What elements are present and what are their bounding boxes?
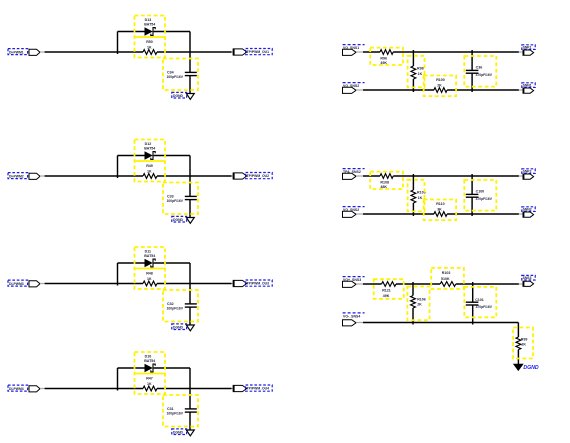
- wire: [363, 213, 434, 215]
- wire / junction: [471, 174, 473, 194]
- wire: [118, 31, 145, 33]
- input port VO_SNS1: [343, 49, 357, 55]
- svg-text:470pF/16V: 470pF/16V: [476, 197, 493, 201]
- resistor R108: [380, 174, 393, 179]
- input net label VO_SNS2: [343, 83, 365, 88]
- svg-text:2K: 2K: [521, 343, 526, 347]
- input port VO_SNS4: [343, 320, 357, 326]
- wire / junction: [117, 368, 119, 391]
- wire: [118, 262, 145, 264]
- input net label VO_SNS3: [343, 277, 365, 282]
- highlight box around diode D12 and resistor R49: [135, 140, 166, 182]
- wire: [356, 175, 363, 177]
- highlight box around resistor R108: [370, 172, 403, 189]
- wire / junction: [412, 50, 414, 66]
- svg-text:R103: R103: [442, 271, 451, 275]
- output net label TP/PWM_OU3: [246, 280, 273, 286]
- wire: [356, 213, 363, 215]
- resistor R106: [411, 296, 416, 308]
- highlight box around resistor R98: [408, 56, 425, 88]
- wire: [519, 175, 523, 177]
- svg-text:1K: 1K: [147, 170, 152, 174]
- wire: [412, 203, 414, 216]
- output port TP/PWM_OU2: [233, 173, 247, 179]
- svg-text:SNN1: SNN1: [523, 84, 532, 88]
- resistor R98: [411, 66, 416, 79]
- svg-text:DI-PWM1: DI-PWM1: [9, 50, 24, 54]
- ground DGND: [186, 430, 194, 436]
- svg-text:2K: 2K: [417, 302, 422, 306]
- svg-text:49K: 49K: [383, 294, 390, 298]
- wire: [363, 322, 518, 324]
- wire: [45, 175, 143, 177]
- svg-text:D11: D11: [145, 250, 151, 254]
- wire: [393, 51, 519, 53]
- input port DI-PWM1: [29, 49, 40, 55]
- wire: [232, 388, 234, 390]
- wire: [40, 283, 45, 285]
- output net label TP/PWM_OU4: [246, 385, 273, 391]
- wire: [412, 308, 414, 325]
- svg-text:BAT54: BAT54: [144, 23, 155, 27]
- wire: [456, 283, 519, 285]
- wire: [45, 51, 143, 53]
- wire: [40, 388, 45, 390]
- input net label DI-PWM4: [8, 385, 28, 391]
- svg-text:SNP1: SNP1: [523, 46, 532, 50]
- diode D11 BAT54: [145, 259, 155, 267]
- output net label SNN1: [522, 83, 535, 88]
- svg-text:R99: R99: [521, 338, 528, 342]
- svg-text:470pF/16V: 470pF/16V: [476, 305, 493, 309]
- resistor R99: [516, 337, 521, 350]
- highlight box around capacitor C31: [163, 395, 198, 427]
- svg-text:100pF/16V: 100pF/16V: [167, 75, 184, 79]
- svg-text:3K: 3K: [437, 208, 442, 212]
- resistor R96: [380, 50, 393, 55]
- input port DI-PWM3: [29, 281, 40, 287]
- wire / junction: [471, 50, 473, 70]
- wire / junction: [412, 174, 414, 190]
- input net label VO_SNS2: [343, 207, 365, 212]
- output net label SNN2: [522, 207, 535, 212]
- wire: [356, 322, 363, 324]
- highlight box around resistor R110: [424, 200, 456, 221]
- highlight divider line: [135, 160, 166, 162]
- wire: [232, 175, 234, 177]
- output port SNN2: [523, 212, 534, 217]
- svg-text:1K: 1K: [147, 277, 152, 281]
- highlight box around diode D13 and resistor R50: [135, 16, 166, 58]
- svg-text:C32: C32: [167, 302, 174, 306]
- diode D10 BAT54: [145, 364, 155, 372]
- svg-text:DGND: DGND: [173, 325, 184, 329]
- wire: [189, 263, 191, 304]
- svg-text:C100: C100: [476, 190, 485, 194]
- output port SNS3: [523, 281, 534, 286]
- svg-text:R48: R48: [146, 272, 153, 276]
- svg-text:C36: C36: [476, 66, 483, 70]
- wire: [519, 213, 523, 215]
- wire: [189, 32, 191, 73]
- svg-text:BAT54: BAT54: [144, 254, 155, 258]
- highlight box around resistor R100: [424, 76, 456, 97]
- wire: [189, 200, 191, 218]
- svg-text:D12: D12: [145, 142, 152, 146]
- output port TP/PWM_OU4: [233, 385, 247, 391]
- capacitor C100: [466, 194, 479, 197]
- svg-text:100pF/16V: 100pF/16V: [167, 306, 184, 310]
- highlight divider line: [135, 373, 166, 375]
- output net label SNP2: [522, 169, 535, 174]
- svg-text:BAT54: BAT54: [144, 359, 155, 363]
- svg-text:R100: R100: [436, 78, 445, 82]
- highlight box around resistor R121: [374, 279, 404, 299]
- input net label TPA_SNS2: [343, 169, 365, 174]
- svg-text:DGND: DGND: [173, 94, 184, 98]
- wire: [189, 76, 191, 94]
- svg-text:C33: C33: [167, 194, 174, 198]
- wire: [519, 89, 523, 91]
- diode D12 BAT54: [145, 152, 155, 160]
- wire: [232, 51, 234, 53]
- wire: [517, 350, 519, 365]
- output port SNP2: [523, 174, 534, 179]
- highlight box around resistor R96: [370, 48, 403, 65]
- svg-text:470pF/16V: 470pF/16V: [476, 73, 493, 77]
- capacitor C33: [185, 196, 197, 199]
- ground net label DGND: [172, 429, 187, 435]
- svg-text:R96: R96: [380, 56, 387, 60]
- capacitor C32: [185, 304, 197, 307]
- wire: [189, 368, 191, 409]
- svg-text:R47: R47: [146, 377, 153, 381]
- output net label SNS3: [522, 275, 535, 280]
- resistor R103: [440, 282, 456, 287]
- svg-text:R98: R98: [417, 66, 424, 70]
- svg-text:DGND: DGND: [523, 365, 539, 371]
- wire: [471, 73, 473, 92]
- wire / junction: [117, 263, 119, 286]
- svg-text:2K: 2K: [437, 84, 442, 88]
- input port DI-PWM4: [29, 386, 40, 392]
- highlight box around capacitor C100: [464, 180, 496, 211]
- wire: [157, 283, 232, 285]
- wire: [154, 367, 190, 369]
- highlight box around diode D10 and resistor R47: [135, 352, 166, 394]
- wire / junction: [412, 282, 414, 296]
- svg-text:1K: 1K: [418, 72, 423, 76]
- input net label DI-PWM1: [8, 49, 28, 55]
- svg-text:TP/PWM_OU2: TP/PWM_OU2: [247, 174, 270, 178]
- ground DGND: [186, 325, 194, 331]
- wire: [363, 175, 380, 177]
- wire / junction: [472, 282, 474, 302]
- resistor R109: [411, 190, 416, 203]
- output port SNN1: [523, 88, 534, 93]
- wire: [393, 175, 519, 177]
- wire: [232, 283, 234, 285]
- svg-text:C31: C31: [167, 407, 174, 411]
- input net label VO_SNS4: [343, 313, 365, 318]
- output port SNP1: [523, 50, 534, 55]
- svg-text:1K: 1K: [147, 46, 152, 50]
- svg-text:SNS3: SNS3: [523, 276, 532, 280]
- wire: [396, 283, 440, 285]
- resistor R100: [434, 88, 447, 93]
- wire: [447, 213, 519, 215]
- wire: [40, 175, 45, 177]
- ground DGND: [186, 218, 194, 224]
- wire: [154, 155, 190, 157]
- wire: [189, 307, 191, 325]
- diode D13 BAT54: [145, 28, 155, 36]
- svg-text:100pF/16V: 100pF/16V: [167, 199, 184, 203]
- input net label VO_SNS1: [343, 45, 365, 50]
- input port TPA_SNS2: [343, 173, 357, 179]
- svg-text:R108: R108: [380, 180, 389, 184]
- capacitor C31: [185, 409, 197, 412]
- wire: [356, 283, 363, 285]
- highlight box around resistor R109: [408, 180, 425, 212]
- wire: [356, 89, 363, 91]
- wire: [189, 412, 191, 430]
- highlight box around capacitor C101: [464, 287, 496, 317]
- wire: [40, 51, 45, 53]
- ground DGND: [186, 94, 194, 100]
- resistor R49: [143, 174, 157, 179]
- svg-text:R110: R110: [436, 202, 444, 206]
- ground net label DGND: [172, 92, 187, 98]
- wire: [45, 283, 143, 285]
- input port DI-PWM2: [29, 173, 40, 179]
- wire: [363, 51, 380, 53]
- wire: [157, 388, 232, 390]
- svg-text:C101: C101: [475, 298, 484, 302]
- output net label TP/PWM_OU2: [246, 173, 273, 179]
- capacitor C34: [185, 72, 197, 75]
- svg-text:TP/PWM_OU4: TP/PWM_OU4: [247, 387, 270, 391]
- resistor R50: [143, 50, 157, 55]
- svg-text:D13: D13: [145, 18, 152, 22]
- highlight box around capacitor C36: [464, 56, 496, 87]
- svg-text:DGND: DGND: [173, 430, 184, 434]
- wire: [517, 323, 519, 338]
- svg-text:R49: R49: [146, 164, 153, 168]
- wire: [189, 156, 191, 197]
- svg-text:DI-PWM3: DI-PWM3: [9, 282, 24, 286]
- highlight divider line: [135, 268, 166, 270]
- wire / junction: [117, 32, 119, 55]
- wire: [519, 51, 523, 53]
- capacitor C36: [466, 70, 479, 73]
- wire: [45, 388, 143, 390]
- wire: [356, 51, 363, 53]
- svg-text:1K: 1K: [418, 196, 423, 200]
- resistor R110: [434, 212, 447, 217]
- wire: [447, 89, 519, 91]
- wire: [157, 175, 232, 177]
- output net label SNP1: [522, 45, 535, 50]
- highlight box around resistor R103: [431, 268, 464, 289]
- highlight box around resistor R106: [407, 287, 429, 321]
- highlight box around resistor R99: [513, 328, 533, 359]
- wire: [154, 262, 190, 264]
- svg-text:100pF/16V: 100pF/16V: [167, 411, 184, 415]
- svg-text:VO-_SNS4: VO-_SNS4: [343, 314, 360, 318]
- input net label DI-PWM3: [8, 280, 28, 286]
- highlight box around diode D11 and resistor R48: [135, 247, 166, 289]
- ground DGND (power symbol): [514, 364, 523, 370]
- svg-text:R50: R50: [146, 40, 153, 44]
- input port VO_SNS2: [343, 87, 357, 93]
- wire: [472, 305, 474, 325]
- output port TP/PWM_OU1: [233, 49, 247, 55]
- ground net label DGND: [172, 324, 187, 330]
- highlight box around capacitor C32: [163, 290, 198, 322]
- wire: [118, 155, 145, 157]
- output port TP/PWM_OU3: [233, 280, 247, 286]
- svg-text:1K: 1K: [147, 382, 152, 386]
- wire: [412, 79, 414, 92]
- wire: [471, 197, 473, 216]
- resistor R48: [143, 281, 157, 286]
- input port VO_SNS3: [343, 281, 357, 287]
- input net label DI-PWM2: [8, 173, 28, 179]
- svg-text:R121: R121: [382, 288, 391, 292]
- wire: [363, 283, 382, 285]
- svg-text:C34: C34: [167, 70, 174, 74]
- svg-text:DI-PWM4: DI-PWM4: [9, 387, 24, 391]
- highlight box around capacitor C34: [163, 59, 198, 91]
- wire: [157, 51, 232, 53]
- svg-text:DGND: DGND: [173, 218, 184, 222]
- input port VO_SNS2: [343, 211, 357, 217]
- svg-text:TP/PWM_OU3: TP/PWM_OU3: [247, 282, 270, 286]
- capacitor C101: [466, 302, 479, 305]
- ground net label DGND: [172, 216, 187, 222]
- svg-text:DI-PWM2: DI-PWM2: [9, 174, 24, 178]
- svg-text:BAT54: BAT54: [144, 147, 155, 151]
- svg-text:R106: R106: [417, 297, 426, 301]
- wire / junction: [117, 156, 119, 179]
- svg-text:SNP2: SNP2: [523, 170, 532, 174]
- output net label TP/PWM_OU1: [246, 49, 273, 55]
- highlight divider line: [135, 36, 166, 38]
- svg-text:TP/PWM_OU1: TP/PWM_OU1: [247, 50, 270, 54]
- wire: [154, 31, 190, 33]
- svg-text:SNN2: SNN2: [523, 208, 532, 212]
- svg-text:D10: D10: [145, 355, 152, 359]
- wire: [363, 89, 434, 91]
- svg-text:510K: 510K: [441, 277, 450, 281]
- highlight box around capacitor C33: [163, 183, 198, 215]
- resistor R47: [143, 386, 157, 391]
- resistor R121: [382, 282, 396, 287]
- wire: [118, 367, 145, 369]
- wire: [519, 283, 523, 285]
